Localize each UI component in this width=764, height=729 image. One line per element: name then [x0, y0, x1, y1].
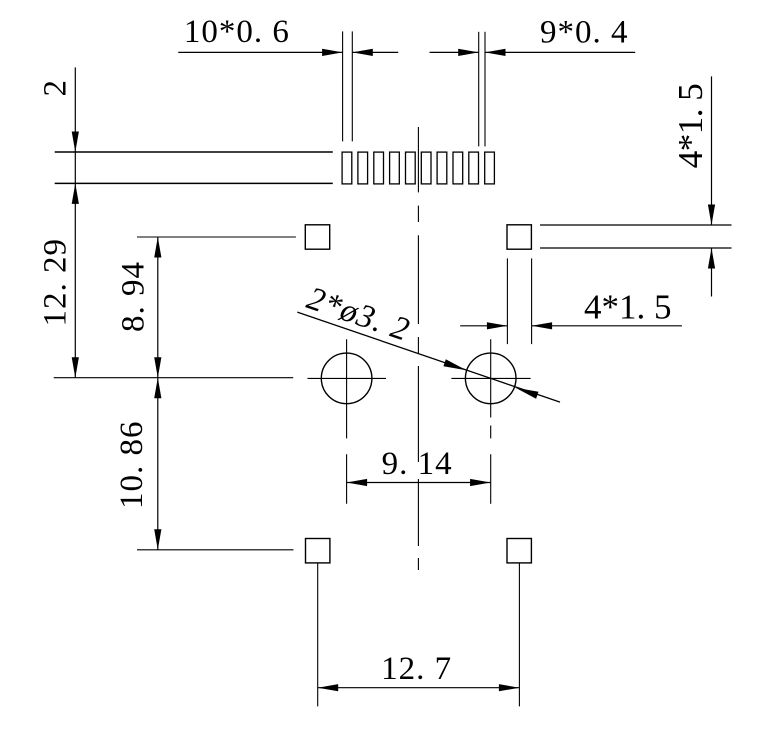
ext line at hole center level [54, 377, 294, 379]
svg-text:4*1. 5: 4*1. 5 [584, 288, 672, 327]
dim 8.94 arrow down [154, 357, 161, 378]
dim 8.94 arrow up [154, 237, 161, 258]
dim 4*1.5 mid line right [532, 325, 682, 327]
crosshair right vertical [490, 339, 492, 504]
dim 4*1.5 mid arrow right [532, 322, 553, 329]
svg-text:8. 94: 8. 94 [116, 261, 152, 332]
dim 10*0.6 line left [178, 51, 342, 53]
dim 4*1.5 right arrow down [708, 205, 715, 226]
dim 4*1.5 mid arrow left [487, 322, 508, 329]
dim 10*0.6 arrow left [322, 49, 343, 56]
dim 8.94 ext line top [137, 236, 296, 238]
dim 12.7 arrow right [499, 684, 520, 691]
svg-text:4*1. 5: 4*1. 5 [671, 84, 710, 169]
crosshair right horizontal [451, 377, 530, 379]
dim line 8.94-10.86 vertical [157, 237, 159, 550]
dim 9*0.4 ext line right [484, 32, 486, 147]
vertical centerline [417, 127, 419, 570]
dim 2 arrow up [72, 183, 79, 204]
dim 12.29 line [74, 183, 76, 377]
leader arrow into circle left [443, 359, 466, 370]
dim 9*0.4 ext line left [478, 32, 480, 147]
dim 9.14 arrow left [347, 479, 368, 486]
svg-text:12. 7: 12. 7 [381, 651, 452, 687]
body edge line top [55, 151, 333, 153]
pin 6 [421, 152, 431, 184]
dim 9.14 line [347, 482, 491, 484]
dim 10*0.6 ext line left [342, 31, 344, 141]
dim 10*0.6 arrow right [352, 49, 373, 56]
dim 4*1.5 right line upper [711, 76, 713, 225]
rail line bottom [540, 247, 732, 249]
dim 9*0.4 arrow left [458, 49, 479, 56]
dim 12.7 ext line left [317, 564, 319, 707]
dim 12.7 line [318, 687, 520, 689]
hole circle right [465, 353, 516, 404]
dim 10.86 ext line bottom [137, 549, 294, 551]
svg-text:10*0. 6: 10*0. 6 [184, 14, 290, 50]
dim 4*1.5 right line lower [711, 248, 713, 297]
dim 2 line upper [74, 67, 76, 183]
body edge line bottom [55, 182, 333, 184]
pin 8 [453, 152, 463, 184]
svg-text:9. 14: 9. 14 [382, 446, 453, 482]
pin 1 [342, 152, 352, 184]
dim 4*1.5 mid ext line left [506, 258, 508, 344]
dim 9*0.4 line right [485, 51, 635, 53]
leader arrow into circle right [516, 388, 539, 399]
dim 4*1.5 mid ext line right [531, 258, 533, 344]
pin 7 [437, 152, 447, 184]
dim 10*0.6 line right [352, 51, 398, 53]
pin 9 [469, 152, 479, 184]
svg-text:9*0. 4: 9*0. 4 [540, 15, 629, 51]
pin 5 [406, 152, 416, 184]
dim 12.7 arrow left [318, 684, 339, 691]
dim 4*1.5 right arrow up [708, 248, 715, 269]
hole circle left [321, 353, 372, 404]
dim 9*0.4 line left [430, 51, 479, 53]
pad square top-right [507, 225, 531, 249]
leader line 2*dia3.2 [297, 312, 560, 402]
dim 12.29 arrow bottom [72, 357, 79, 378]
pad square top-left [305, 225, 329, 249]
crosshair left horizontal [308, 377, 387, 379]
dim 10.86 arrow up [154, 378, 161, 399]
dim 4*1.5 mid line left [460, 325, 507, 327]
dim 9.14 arrow right [470, 479, 491, 486]
pin 3 [374, 152, 384, 184]
pad square bottom-left [306, 539, 330, 563]
rail line top [540, 224, 732, 226]
crosshair left vertical [346, 339, 348, 504]
pin 4 [390, 152, 400, 184]
pin 2 [358, 152, 368, 184]
pad square bottom-right [507, 539, 531, 563]
dim 9*0.4 arrow right [485, 49, 506, 56]
svg-text:12. 29: 12. 29 [38, 238, 74, 327]
pin 10 [485, 152, 495, 184]
svg-text:10. 86: 10. 86 [114, 421, 150, 510]
svg-text:2: 2 [38, 79, 74, 97]
dim 12.7 ext line right [518, 564, 520, 707]
dim 10.86 arrow down [154, 529, 161, 550]
dim 2 arrow down [72, 132, 79, 153]
dim 10*0.6 ext line right [351, 31, 353, 141]
